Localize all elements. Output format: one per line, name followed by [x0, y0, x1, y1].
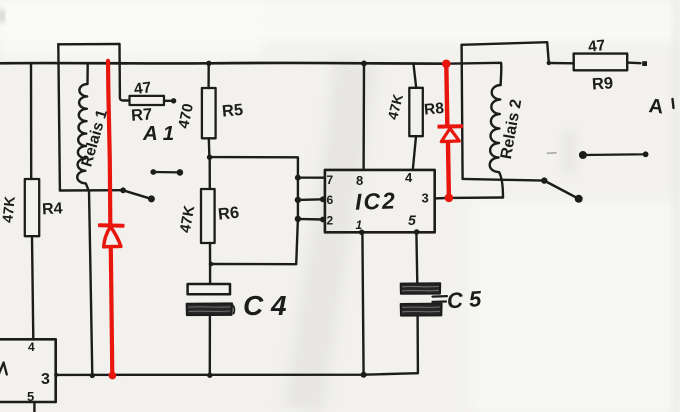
svg-text:R8: R8: [423, 100, 445, 119]
pin label 4: [405, 170, 413, 185]
node: R7 output terminal: [171, 98, 176, 103]
label 47K (R8): [384, 92, 406, 121]
label R5: [221, 101, 244, 121]
switch lever relais 2: [544, 181, 578, 199]
node: junction C4 wire / bottom bus: [207, 373, 212, 378]
node: pin8 bus junction: [361, 61, 367, 67]
pin label 4: [28, 340, 35, 354]
wire: R4 to bus: [30, 63, 33, 179]
pin label 5: [27, 389, 34, 404]
label C 5: [446, 286, 483, 313]
svg-text:47: 47: [587, 37, 606, 56]
wire: IC2 pin1 to bottom bus: [362, 232, 363, 374]
IC U1 (box bottom-left): [0, 339, 56, 402]
node: pin7 branch: [295, 175, 301, 181]
wire: R6 to C4: [209, 243, 212, 284]
node: R9 output terminal: [642, 61, 647, 66]
svg-text:47K: 47K: [0, 195, 19, 224]
label R4: [42, 200, 63, 218]
label R8: [423, 100, 445, 119]
capacitor C5 top plate (filled): [401, 283, 441, 294]
resistor R4: [25, 179, 39, 236]
label R6: [217, 204, 240, 224]
label R9: [591, 74, 613, 93]
pin label 6: [327, 193, 334, 207]
svg-text:A: A: [648, 95, 665, 118]
node: R5/R6 junction: [207, 155, 212, 160]
svg-text:4: 4: [28, 340, 35, 354]
svg-text:4: 4: [405, 170, 413, 185]
partial mark right edge: [673, 99, 674, 108]
capacitor C4 bottom plate (filled): [187, 303, 232, 315]
resistor R9: [574, 54, 628, 71]
pin label 7: [327, 173, 334, 187]
label 47K (R6): [177, 204, 199, 234]
svg-text:C 5: C 5: [446, 286, 483, 313]
label Relais 1: [78, 107, 111, 168]
capacitor C4 top plate: [188, 284, 230, 294]
diode D2 bar: [439, 124, 462, 128]
node: relais2 frame top-right: [547, 61, 551, 65]
label 470: [175, 102, 197, 130]
pin label 5: [408, 212, 416, 228]
diode D2 line: [446, 64, 449, 198]
resistor R8: [409, 88, 423, 136]
label IC2: [355, 187, 398, 214]
wire: coil bottom to diode node / pin3: [449, 196, 503, 199]
diode D1 anode line: [111, 249, 113, 375]
wire: bus to R5: [207, 63, 209, 88]
wire: IC2 pin5 to C5: [415, 232, 418, 283]
svg-text:7: 7: [327, 173, 334, 187]
svg-text:R5: R5: [221, 101, 244, 121]
svg-text:3: 3: [41, 371, 50, 388]
svg-text:R9: R9: [591, 74, 613, 93]
wire: C5 to bottom bus: [416, 315, 419, 373]
svg-text:R4: R4: [42, 200, 63, 218]
node: R6/C4/IC2 junction: [209, 262, 214, 267]
pin label 1: [356, 218, 363, 232]
svg-text:5: 5: [408, 212, 416, 228]
switch contact pair relais 1: [153, 171, 180, 174]
switch contact pair relais 2: [583, 153, 646, 156]
svg-text:C 4: C 4: [243, 290, 287, 321]
wire: R7 right lead: [164, 100, 171, 102]
pin 5 stub of U1: [33, 402, 35, 412]
node: U1 pin 3: [54, 373, 58, 377]
node: D1 bottom (red): [109, 372, 117, 380]
pin label 3: [422, 191, 429, 206]
faint mark near relais2 contact: [548, 152, 557, 154]
node: D2 bottom (red): [445, 194, 454, 203]
diode D1 triangle: [104, 227, 121, 247]
label Relais 2: [498, 98, 525, 161]
wire: branch down to pin2: [298, 200, 323, 220]
resistor R6: [201, 189, 215, 243]
svg-text:3: 3: [422, 191, 429, 206]
label 47 (R9): [587, 37, 606, 56]
node: junction IC2 pin1 wire / bottom bus: [361, 372, 367, 378]
switch lever relais 1: [123, 190, 151, 199]
wire: branch down to pin6: [298, 178, 323, 200]
wire: IC2 pin8 to bus: [362, 63, 365, 169]
svg-text:A 1: A 1: [142, 122, 174, 145]
diode D1 bar: [100, 223, 123, 227]
label A 1: [142, 122, 174, 145]
C5 gap marks: [433, 296, 448, 302]
wire: R5 to junction: [208, 138, 211, 157]
coil Relais 2: [490, 85, 503, 198]
wire: relais1 frame to bottom bus: [89, 191, 92, 376]
label C 4: [243, 290, 287, 321]
node: junction relais1 wire / bottom bus: [90, 373, 95, 378]
wire: top supply bus: [0, 62, 446, 65]
IC2 box: [325, 170, 435, 232]
label A (right): [648, 95, 665, 118]
node: R5 top junction: [206, 61, 211, 66]
svg-text:R6: R6: [217, 204, 240, 224]
node: D2 top (red): [442, 60, 451, 69]
wire: junction to IC2 pin7: [210, 157, 324, 178]
wire: R8 to IC2 pin4: [413, 136, 416, 170]
diode D1 cathode line (red): [108, 61, 110, 224]
label 47K (R4): [0, 195, 19, 224]
wire: junction to R6: [208, 157, 211, 189]
wire: frame to R9: [549, 62, 574, 65]
label 47 (R7): [133, 79, 152, 98]
capacitor C5 bottom plate (filled): [401, 304, 442, 316]
relay frame Relais 2: [462, 42, 549, 63]
wire: relais1 frame to R7: [120, 98, 130, 101]
resistor R5: [202, 88, 216, 138]
pin label 8: [356, 173, 363, 188]
svg-text:5: 5: [27, 389, 34, 404]
wire: bus to R8: [413, 63, 416, 88]
svg-text:47: 47: [133, 79, 152, 98]
wire: R4 to IC1 pin 4: [32, 236, 33, 339]
red diode D1 group: [100, 61, 123, 380]
wire: IC2 pin3 to diode node: [435, 197, 446, 200]
wire: branch down to C4 node: [211, 219, 298, 264]
label R7: [130, 105, 152, 124]
resistor R7: [130, 96, 165, 105]
diode D2 triangle: [441, 128, 459, 141]
red diode D2 group: [439, 60, 462, 203]
pin label 3: [41, 371, 50, 388]
wire: C4 to bottom bus: [209, 315, 211, 375]
wire: bottom bus: [56, 373, 418, 375]
svg-text:8: 8: [356, 173, 363, 188]
partial label inside U1: [0, 363, 7, 376]
relay frame Relais 1: [58, 43, 119, 46]
svg-text:6: 6: [327, 193, 334, 207]
coil Relais 1: [77, 64, 88, 190]
wire: bus to relais2 coil top: [446, 63, 501, 85]
pin label 2: [327, 214, 334, 228]
wire: R9 right lead: [627, 61, 640, 64]
svg-text:2: 2: [327, 214, 334, 228]
svg-text:IC2: IC2: [355, 187, 398, 214]
